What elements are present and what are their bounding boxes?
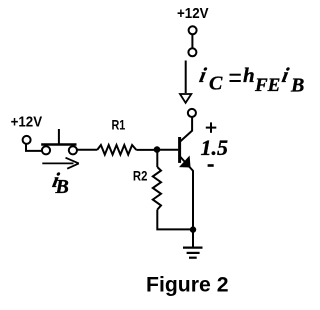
+12V supply label (top) bbox=[177, 5, 209, 22]
svg-text:R2: R2 bbox=[133, 168, 148, 184]
wire switch to R1 bbox=[77, 149, 97, 151]
transistor Q1 emitter arrow bbox=[180, 157, 190, 167]
svg-text:+12V: +12V bbox=[11, 113, 42, 130]
label iB bbox=[50, 168, 68, 198]
terminal circle (left supply) bbox=[23, 136, 31, 144]
current arrow iB head bbox=[66, 158, 79, 169]
label + (BE polarity) bbox=[206, 122, 217, 132]
pushbutton switch S1 left contact bbox=[42, 146, 50, 154]
ground bbox=[183, 231, 203, 258]
label R2 bbox=[133, 168, 148, 184]
resistor R1 bbox=[97, 145, 136, 155]
svg-text:+12V: +12V bbox=[177, 5, 209, 22]
svg-text:Figure 2: Figure 2 bbox=[146, 274, 229, 297]
current arrow iB shaft bbox=[42, 162, 73, 164]
label hFE bbox=[243, 63, 280, 96]
svg-text:R1: R1 bbox=[112, 117, 126, 133]
label iB (equation) bbox=[280, 63, 304, 96]
wire node to R2 bbox=[156, 151, 158, 167]
label - (BE polarity) bbox=[208, 164, 214, 167]
svg-text:B: B bbox=[55, 176, 69, 198]
wire collector vertical bbox=[191, 117, 193, 131]
transistor Q1 emitter diagonal bbox=[180, 156, 193, 171]
transistor Q1 collector diagonal bbox=[180, 131, 193, 143]
wire R1 to node bbox=[136, 149, 157, 151]
label iC bbox=[197, 63, 223, 95]
pushbutton switch S1 right contact bbox=[69, 146, 77, 154]
label R1 bbox=[112, 117, 126, 133]
wire R2 bottom to ground node bbox=[157, 210, 193, 230]
svg-text:B: B bbox=[290, 74, 304, 96]
connector terminal circle (top lower) bbox=[188, 48, 196, 56]
svg-text:h: h bbox=[243, 63, 255, 87]
wire between top connector circles bbox=[191, 34, 193, 48]
label 1.5 bbox=[201, 135, 229, 160]
caption Figure 2 bbox=[146, 274, 229, 297]
wire emitter down to ground node bbox=[192, 171, 194, 230]
transistor Q1 base bar bbox=[178, 137, 181, 163]
current arrow iC shaft bbox=[185, 61, 187, 94]
resistor R2 bbox=[153, 167, 161, 210]
collector terminal circle of transistor bbox=[188, 109, 196, 117]
svg-text:C: C bbox=[209, 73, 223, 95]
wire node to base bbox=[157, 149, 178, 151]
svg-text:FE: FE bbox=[254, 75, 280, 96]
label = bbox=[230, 75, 241, 81]
pushbutton switch S1 stem bbox=[58, 129, 60, 144]
pushbutton switch S1 actuator bar bbox=[41, 143, 76, 145]
+12V supply label (left) bbox=[11, 113, 42, 130]
connector terminal circle (top upper) bbox=[189, 26, 197, 34]
svg-text:1.5: 1.5 bbox=[201, 135, 229, 160]
node junction dot (emitter-ground) bbox=[190, 226, 196, 232]
node junction dot (base node) bbox=[154, 146, 161, 153]
current arrow iC open arrowhead bbox=[180, 94, 191, 103]
wire terminal to switch bbox=[26, 144, 42, 151]
